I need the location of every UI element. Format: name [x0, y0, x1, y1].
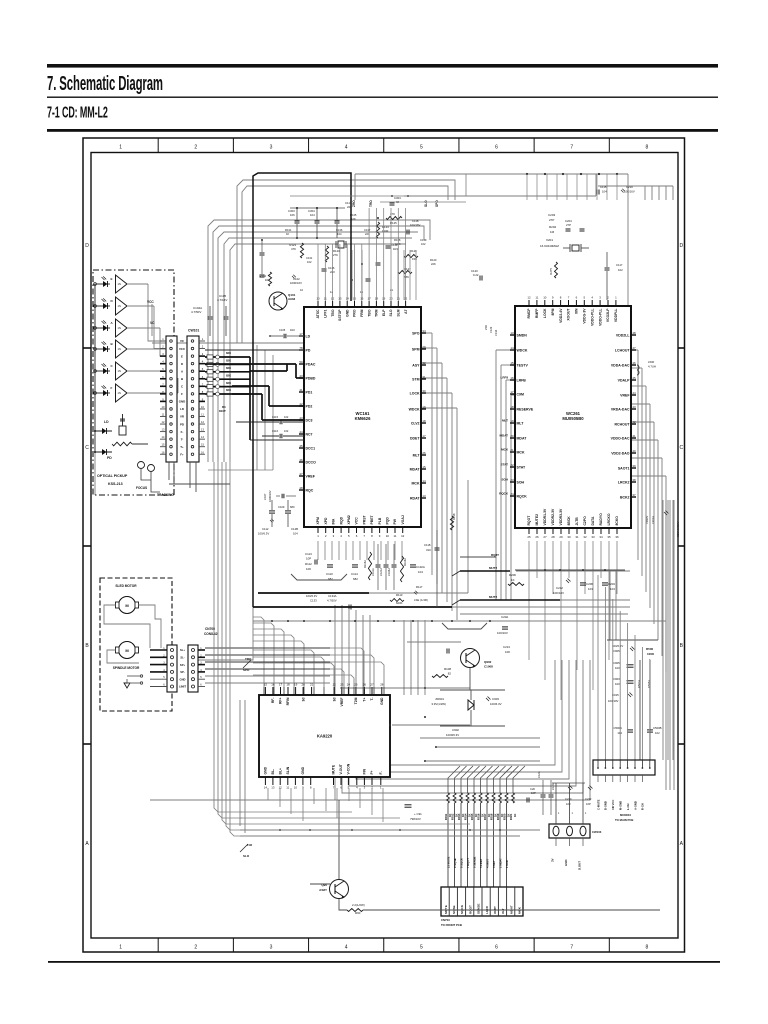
svg-text:104: 104 [418, 570, 423, 574]
svg-text:27K: 27K [333, 253, 338, 257]
svg-text:8CKO: 8CKO [615, 516, 619, 526]
svg-text:3: 3 [270, 145, 273, 151]
svg-text:2: 2 [194, 145, 197, 151]
svg-text:4.7K: 4.7K [395, 242, 401, 246]
svg-text:CN703: CN703 [441, 918, 450, 922]
C206 103 [580, 582, 586, 584]
column ruler dividers and numbers [157, 138, 159, 153]
svg-text:VCC: VCC [355, 517, 359, 525]
svg-text:1M: 1M [550, 230, 555, 234]
bus under KA9220 [240, 811, 352, 813]
svg-text:C113: C113 [305, 552, 312, 556]
svg-text:GND: GND [301, 766, 305, 774]
svg-text:26: 26 [422, 451, 426, 455]
svg-text:SP-: SP- [180, 670, 185, 674]
svg-text:47K: 47K [291, 247, 296, 251]
junction dots row under IC1 [271, 620, 273, 622]
svg-text:C903: C903 [613, 677, 620, 681]
svg-text:WDCK: WDCK [409, 407, 420, 411]
svg-text:16: 16 [271, 683, 275, 687]
svg-text:10K: 10K [505, 650, 510, 654]
optical pickup dashed enclosure KSS-213 [93, 270, 174, 495]
svg-text:7: 7 [570, 145, 573, 151]
svg-text:44: 44 [632, 391, 636, 395]
svg-text:R918: R918 [490, 813, 494, 820]
svg-text:PLB: PLB [378, 517, 382, 524]
svg-text:46: 46 [299, 458, 303, 462]
svg-text:106: 106 [290, 213, 295, 217]
svg-text:C105: C105 [279, 328, 286, 332]
svg-text:82K: 82K [226, 373, 231, 377]
svg-text:798/10V: 798/10V [410, 817, 421, 821]
svg-text:LD: LD [180, 407, 184, 411]
R125 47K [386, 216, 402, 219]
svg-text:82K: 82K [226, 388, 231, 392]
op-amp buffer E [116, 275, 128, 293]
svg-text:R912: R912 [451, 813, 455, 820]
svg-text:C203: C203 [548, 213, 556, 217]
svg-text:1000/16V: 1000/16V [290, 281, 302, 285]
svg-text:1K: 1K [286, 232, 289, 236]
svg-text:LRCK2: LRCK2 [618, 480, 630, 484]
svg-text:PW: PW [393, 518, 397, 524]
svg-text:CLV2: CLV2 [411, 421, 420, 425]
svg-text:ZRO: ZRO [352, 200, 356, 207]
svg-text:E: E [111, 277, 113, 281]
wire verticals dropping to IC1 top pins [317, 244, 319, 301]
svg-text:48: 48 [299, 486, 303, 490]
svg-text:R911: R911 [444, 813, 448, 820]
svg-text:LD: LD [306, 334, 311, 338]
R206 1K resistor [508, 583, 524, 586]
svg-text:PD: PD [180, 422, 184, 426]
svg-text:103: 103 [588, 587, 593, 591]
C116 220 cap [322, 268, 327, 270]
svg-text:11: 11 [286, 786, 289, 790]
svg-text:1N: 1N [118, 391, 121, 395]
svg-text:12: 12 [527, 296, 531, 300]
svg-text:C109: C109 [278, 505, 285, 509]
transistor Q101 A933 [269, 292, 287, 310]
svg-text:F-: F- [379, 771, 383, 774]
svg-text:STAT: STAT [501, 463, 509, 467]
svg-text:V-CON: V-CON [347, 763, 351, 774]
motor wiring [104, 605, 150, 648]
header thick rule 2 [47, 129, 718, 132]
svg-text:MDAT: MDAT [410, 467, 421, 471]
C117 102 cap [605, 267, 610, 269]
svg-text:9 SQSE: 9 SQSE [453, 858, 457, 868]
svg-text:1N: 1N [118, 347, 121, 351]
svg-text:SLIN: SLIN [286, 766, 290, 774]
svg-text:FtO: FtO [247, 843, 253, 847]
svg-text:RQ8T: RQ8T [491, 553, 499, 557]
svg-text:TESTV: TESTV [517, 363, 529, 367]
svg-text:C20A 10/50V: C20A 10/50V [676, 521, 680, 537]
wire bus: connector to bottom rail long verticals [214, 462, 242, 812]
svg-text:GND: GND [380, 697, 384, 705]
svg-text:100: 100 [615, 682, 620, 686]
wire bus: into IC2 left pins [496, 349, 515, 351]
svg-text:TBO: TBO [367, 309, 371, 317]
svg-text:30: 30 [567, 535, 571, 539]
svg-text:PDAC: PDAC [306, 362, 316, 366]
svg-text:AS8Y: AS8Y [319, 888, 327, 892]
connector CW101 strip B [187, 336, 199, 462]
svg-text:PRST: PRST [362, 515, 366, 525]
svg-text:C134A: C134A [328, 594, 337, 598]
R123 47K vertical resistor [300, 243, 303, 258]
transistor Q902 C1008 [461, 649, 480, 668]
motor dashed enclosure [100, 578, 172, 711]
svg-text:DDET: DDET [410, 436, 420, 440]
svg-text:VCC: VCC [179, 347, 186, 351]
svg-text:23: 23 [340, 683, 344, 687]
svg-text:C133: C133 [310, 599, 317, 603]
svg-text:C902: C902 [452, 728, 459, 732]
svg-text:32: 32 [422, 361, 426, 365]
svg-text:C112: C112 [262, 527, 269, 531]
junction dots on bottom bus [279, 829, 281, 831]
svg-text:3V: 3V [551, 858, 555, 862]
svg-text:10P: 10P [586, 802, 591, 806]
inner border frame [91, 153, 678, 939]
svg-text:T+: T+ [363, 697, 367, 701]
svg-text:45: 45 [632, 376, 636, 380]
wires around Q902 [407, 641, 461, 643]
svg-text:38: 38 [632, 478, 636, 482]
svg-text:MU0505B0: MU0505B0 [562, 416, 584, 421]
svg-text:PRO: PRO [353, 309, 357, 317]
svg-text:C132A: C132A [416, 565, 425, 569]
svg-text:Q902: Q902 [484, 660, 492, 664]
svg-text:810T: 810T [219, 409, 226, 413]
svg-text:GND: GND [264, 766, 268, 774]
svg-text:18: 18 [510, 405, 514, 409]
svg-text:32: 32 [583, 535, 587, 539]
svg-text:R-CH: R-CH [641, 803, 645, 810]
svg-text:VDD2-4V: VDD2-4V [559, 308, 563, 323]
transistor Q903 [330, 880, 349, 899]
svg-text:JLTB: JLTB [575, 517, 579, 526]
svg-text:C905: C905 [613, 649, 620, 653]
svg-text:PD: PD [306, 348, 311, 352]
svg-text:16: 16 [510, 376, 514, 380]
svg-text:10: 10 [386, 534, 390, 538]
capacitor C115 102 at DC3 pin [279, 420, 281, 425]
R127 68K [398, 270, 412, 273]
crystal X301 [338, 241, 344, 248]
svg-text:R913: R913 [457, 813, 461, 820]
svg-text:ZD901: ZD901 [435, 697, 444, 701]
svg-text:T-: T- [370, 698, 374, 701]
svg-text:68K: 68K [404, 275, 409, 279]
svg-text:47: 47 [632, 346, 636, 350]
svg-text:R131: R131 [285, 228, 292, 232]
svg-text:17: 17 [422, 434, 426, 438]
op-amp buffer B [116, 340, 128, 358]
photodiode E [100, 283, 110, 285]
svg-text:LSE (1/4R): LSE (1/4R) [414, 598, 428, 602]
svg-text:26: 26 [363, 683, 367, 687]
svg-text:1000/10V: 1000/10V [268, 490, 272, 502]
svg-text:GND: GND [345, 309, 349, 317]
svg-text:PD1: PD1 [306, 390, 313, 394]
connector CN700 strip A [167, 645, 177, 692]
svg-text:C115: C115 [272, 415, 279, 419]
svg-text:620K: 620K [396, 601, 403, 605]
svg-text:45: 45 [299, 444, 303, 448]
svg-text:DC3: DC3 [306, 418, 313, 422]
R118 1M vertical resistor right [450, 516, 453, 530]
R113 620K [390, 599, 404, 602]
svg-text:XOOUT: XOOUT [567, 308, 571, 321]
svg-text:27: 27 [543, 535, 547, 539]
svg-text:RESERVE: RESERVE [517, 407, 534, 411]
svg-text:15: 15 [422, 465, 426, 469]
wire bus: top-left nested loops from connector to IC1 top [237, 180, 455, 343]
svg-text:SENSE: SENSE [477, 904, 481, 915]
connector CW101 strip A [166, 336, 177, 462]
svg-text:LOCK: LOCK [410, 391, 420, 395]
svg-text:KM6626: KM6626 [355, 416, 371, 421]
svg-text:680: 680 [290, 505, 295, 509]
svg-text:VDDR2-3V: VDDR2-3V [551, 508, 555, 526]
svg-text:RFIN: RFIN [286, 697, 290, 705]
svg-text:2 MDAT: 2 MDAT [498, 858, 502, 868]
wires at Q903 [338, 800, 340, 879]
svg-text:LCHOUT: LCHOUT [615, 348, 630, 352]
svg-text:SP+: SP+ [180, 663, 186, 667]
svg-text:PD2: PD2 [306, 404, 313, 408]
svg-text:VDDO-DAC: VDDO-DAC [611, 436, 630, 440]
horizontal rail below IC2 [515, 569, 625, 571]
wire bus: left column long verticals [198, 607, 253, 660]
svg-text:BL-: BL- [271, 769, 275, 775]
svg-text:VRDA-DAC: VRDA-DAC [611, 407, 630, 411]
svg-text:C104A: C104A [387, 568, 391, 576]
wire bus: verticals between IC1 and IC2 [431, 333, 433, 575]
svg-text:10K: 10K [351, 217, 356, 221]
svg-text:11: 11 [535, 296, 538, 300]
svg-text:SMDN: SMDN [517, 333, 528, 337]
svg-text:F+: F+ [370, 770, 374, 774]
sled motor M1 [119, 597, 136, 614]
svg-text:1N: 1N [118, 326, 121, 330]
svg-text:R90: R90 [355, 911, 361, 915]
IC U301 KA9220 motor/coil driver [259, 695, 390, 777]
svg-text:GND: GND [564, 860, 568, 866]
svg-text:SL-: SL- [180, 656, 184, 660]
junction dots right of KA9220 [424, 687, 426, 689]
svg-text:F+: F+ [180, 452, 184, 456]
RC ladder R/C 82K network [205, 356, 232, 358]
svg-text:VDD2LL: VDD2LL [616, 333, 630, 337]
svg-text:SPO: SPO [435, 200, 439, 207]
svg-text:41: 41 [632, 434, 636, 438]
svg-text:13: 13 [422, 494, 426, 498]
svg-text:VDALP: VDALP [618, 378, 631, 382]
svg-text:BCK2: BCK2 [620, 495, 630, 499]
svg-text:1N: 1N [118, 304, 121, 308]
wire bus: IC1 right pins short links [421, 332, 432, 334]
svg-text:C206: C206 [586, 582, 593, 586]
svg-text:C131: C131 [306, 256, 313, 260]
svg-text:MDAT: MDAT [517, 436, 528, 440]
svg-text:R206: R206 [509, 573, 516, 577]
svg-text:C107: C107 [263, 493, 267, 500]
capacitor C116 102 at NC7 pin [279, 434, 281, 439]
svg-text:1: 1 [119, 945, 122, 951]
svg-text:VREF: VREF [306, 474, 316, 478]
LD package cap [119, 426, 126, 435]
svg-text:C1008: C1008 [484, 665, 493, 669]
svg-text:102: 102 [421, 242, 426, 246]
C304 68 cap top right [390, 202, 395, 204]
svg-text:CN700: CN700 [205, 627, 215, 631]
svg-text:C: C [85, 445, 89, 451]
svg-text:25: 25 [354, 683, 358, 687]
svg-text:SPINDLE MOTOR: SPINDLE MOTOR [113, 666, 140, 670]
fan wires to resistor array [448, 766, 460, 793]
svg-text:2: 2 [194, 945, 197, 951]
svg-text:R117: R117 [416, 585, 423, 589]
svg-text:RCHOUT: RCHOUT [615, 422, 631, 426]
svg-text:10: 10 [300, 288, 303, 292]
svg-text:102: 102 [655, 731, 660, 735]
svg-text:R108: R108 [444, 667, 451, 671]
svg-text:RQD: RQD [339, 516, 343, 524]
R126 15K [404, 254, 418, 257]
svg-text:C111A: C111A [371, 568, 375, 576]
thick bus staircase to IC1 left pins [249, 357, 251, 440]
svg-text:21: 21 [390, 288, 393, 292]
svg-text:R113: R113 [396, 593, 403, 597]
svg-text:SPO: SPO [412, 331, 420, 335]
bottom page rule [48, 961, 720, 963]
svg-text:13 MUTE: 13 MUTE [446, 856, 450, 868]
svg-text:2.2(1/2W): 2.2(1/2W) [352, 903, 365, 907]
right lower verticals [609, 570, 611, 640]
svg-text:OPTICAL PICKUP: OPTICAL PICKUP [97, 474, 128, 478]
svg-text:7 RQOT: 7 RQOT [466, 858, 470, 868]
svg-text:C905: C905 [613, 661, 620, 665]
svg-text:82K: 82K [226, 381, 231, 385]
svg-text:8: 8 [646, 945, 649, 951]
svg-text:PDBD: PDBD [306, 376, 316, 380]
svg-text:40: 40 [632, 449, 636, 453]
wire: bottom horizontal distribution [253, 620, 666, 622]
svg-text:3: 3 [270, 945, 273, 951]
svg-text:3d: 3d [332, 698, 336, 702]
svg-text:R135: R135 [350, 213, 357, 217]
svg-text:102: 102 [284, 429, 289, 433]
svg-text:VDDG-3V: VDDG-3V [583, 308, 587, 324]
svg-text:C500A: C500A [613, 726, 622, 730]
R124 120K vertical [376, 222, 379, 238]
svg-text:12: 12 [401, 534, 405, 538]
svg-text:SAOT1: SAOT1 [618, 466, 630, 470]
svg-text:1: 1 [119, 145, 122, 151]
verticals above IC2 [526, 174, 528, 200]
svg-text:17: 17 [299, 332, 303, 336]
svg-text:47: 47 [299, 472, 303, 476]
svg-text:ASY: ASY [412, 363, 420, 367]
svg-text:82K: 82K [226, 366, 231, 370]
svg-text:R914: R914 [464, 813, 468, 820]
spindle motor M2 [119, 642, 136, 659]
svg-text:C121A: C121A [379, 568, 383, 576]
svg-text:RQOT: RQOT [468, 905, 472, 914]
junction dots on top rail [526, 173, 528, 175]
C213 10K cap [446, 649, 448, 654]
svg-text:10P: 10P [531, 791, 536, 795]
svg-text:SQCK: SQCK [460, 904, 464, 914]
svg-text:100/6.3V: 100/6.3V [258, 532, 269, 536]
svg-text:BL+: BL+ [278, 768, 282, 775]
svg-text:NC7: NC7 [306, 432, 313, 436]
svg-text:SPM: SPM [412, 347, 420, 351]
svg-text:B: B [181, 377, 183, 381]
svg-text:682: 682 [353, 577, 358, 581]
svg-text:22: 22 [510, 463, 514, 467]
vertical resistor R275 [555, 262, 558, 278]
svg-text:L500: L500 [648, 360, 655, 364]
svg-text:RQC: RQC [306, 488, 314, 492]
svg-text:18: 18 [422, 419, 426, 423]
svg-text:33: 33 [591, 535, 595, 539]
subtitle: 7-1 CD: MM-L2 [47, 103, 108, 122]
svg-text:C-MUTE: C-MUTE [596, 799, 600, 810]
svg-text:E: E [181, 354, 183, 358]
svg-text:28: 28 [380, 683, 384, 687]
svg-text:TRO: TRO [245, 657, 252, 661]
vertical signal names below resistors [447, 803, 449, 887]
svg-text:13: 13 [271, 786, 275, 790]
svg-text:103: 103 [566, 802, 571, 806]
svg-text:A933: A933 [288, 297, 296, 301]
svg-text:VD33V: VD33V [645, 516, 649, 524]
cluster rails above IC1 [290, 207, 345, 209]
svg-text:4.7/16V: 4.7/16V [217, 298, 227, 302]
svg-text:22: 22 [333, 683, 337, 687]
svg-text:WDCK: WDCK [517, 348, 528, 352]
svg-text:14: 14 [264, 786, 268, 790]
svg-text:SLED MOTOR: SLED MOTOR [115, 584, 137, 588]
svg-text:SLM: SLM [397, 309, 401, 316]
IC U101 WC161 KM6626 servo DSP [304, 307, 421, 527]
svg-text:6 SENSE: 6 SENSE [472, 856, 476, 868]
ground triangle [124, 683, 130, 688]
svg-text:C210: C210 [565, 797, 572, 801]
svg-text:VREF: VREF [340, 698, 344, 707]
svg-text:C219: C219 [626, 185, 633, 189]
svg-text:102: 102 [618, 268, 623, 272]
svg-text:19: 19 [422, 405, 426, 409]
svg-text:C212: C212 [556, 586, 563, 590]
svg-text:104: 104 [337, 232, 342, 236]
svg-text:R118: R118 [452, 513, 456, 520]
svg-text:8PM: 8PM [551, 308, 555, 315]
svg-text:RMCP: RMCP [527, 308, 531, 319]
svg-text:STAT: STAT [517, 465, 526, 469]
C204b 103 [602, 582, 608, 584]
svg-text:35: 35 [607, 535, 611, 539]
svg-text:103: 103 [610, 587, 615, 591]
svg-text:R112: R112 [305, 562, 312, 566]
wire bus: motor connector to right [205, 647, 330, 649]
svg-text:30: 30 [422, 389, 426, 393]
